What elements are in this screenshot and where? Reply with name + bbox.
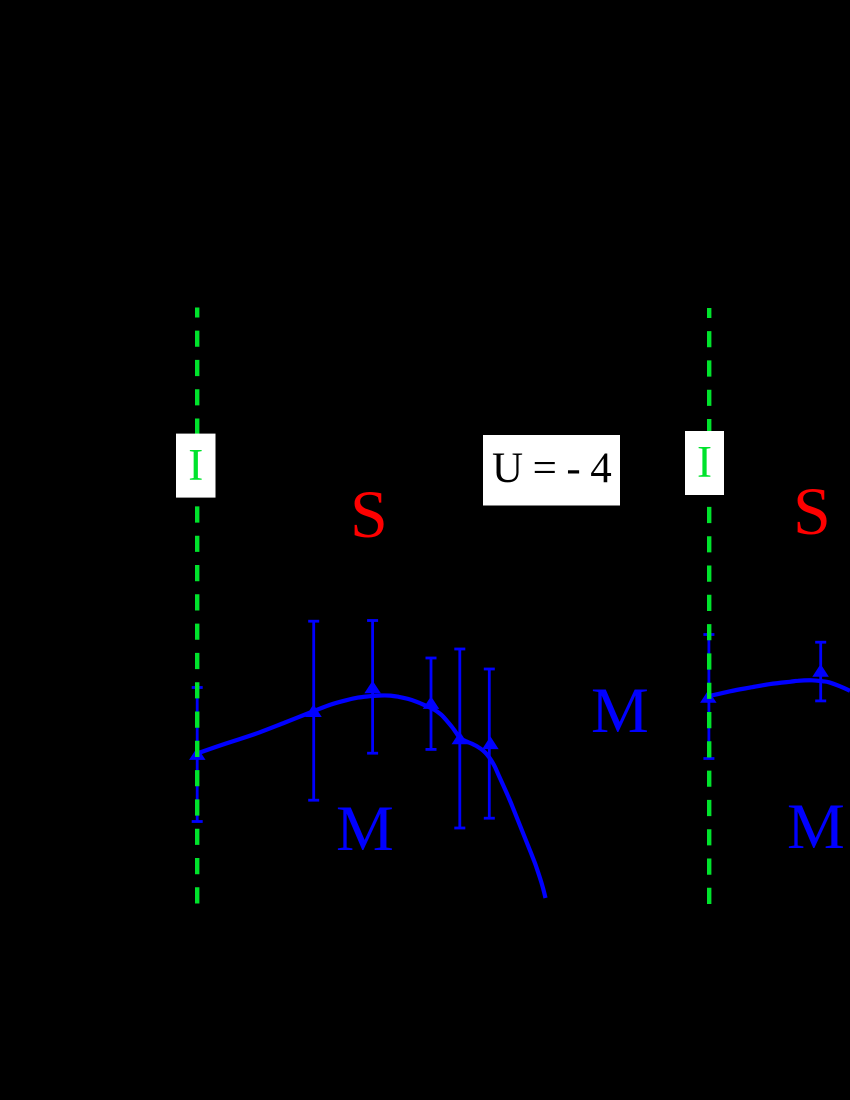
data point T5 <box>452 732 469 745</box>
error bar E5 at x=460 <box>454 649 465 828</box>
data point T3 <box>364 681 381 694</box>
right fitted curve <box>708 680 850 696</box>
label M middle <box>591 679 649 744</box>
left dashed transition line <box>195 308 199 905</box>
error bar E8 at x=820.8 (right panel) <box>815 642 826 701</box>
data point RT1 <box>700 690 717 703</box>
error bar E3 at x=372.5 <box>367 621 378 754</box>
data point T4 <box>423 696 440 709</box>
error bar E7 at x=709 (right panel) <box>703 635 714 759</box>
label S left <box>350 480 388 548</box>
right dashed transition line <box>707 308 711 904</box>
label M left <box>336 797 394 862</box>
white label box right I <box>685 431 724 495</box>
label I right <box>685 431 724 476</box>
error bar E4 at x=431 <box>426 658 437 749</box>
error bar E1 at x=197 <box>192 688 203 822</box>
label S right <box>793 477 831 545</box>
white label box U = - 4 <box>483 435 620 506</box>
data point T2 <box>305 704 322 717</box>
error bar E6 at x=490 <box>484 669 495 818</box>
label I left <box>176 433 216 478</box>
left fitted curve <box>197 695 546 898</box>
data point T1 <box>189 747 206 760</box>
error bar E2 at x=313.9 <box>308 621 319 800</box>
data point T6 <box>482 736 499 749</box>
label U = - 4 <box>492 447 612 490</box>
label M right <box>787 795 845 860</box>
data point RT2 <box>812 664 829 677</box>
white label box left I <box>176 434 216 498</box>
